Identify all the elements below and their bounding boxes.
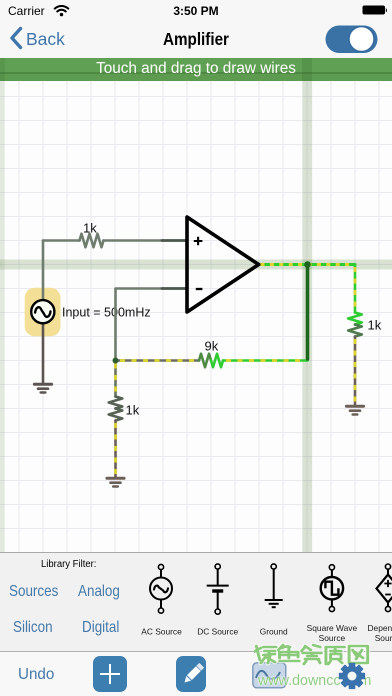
svg-text:Source: Source [319,633,346,643]
svg-text:Input = 500mHz: Input = 500mHz [62,306,151,320]
svg-text:1k: 1k [126,403,140,418]
svg-text:Source: Source [375,633,392,643]
svg-text:Square Wave: Square Wave [307,623,358,633]
svg-text:DC Source: DC Source [197,627,238,637]
svg-text:Ground: Ground [260,627,288,637]
svg-text:Dependent: Dependent [368,623,392,633]
svg-text:1k: 1k [368,318,382,333]
svg-text:9k: 9k [205,339,219,354]
svg-text:AC Source: AC Source [141,627,182,637]
